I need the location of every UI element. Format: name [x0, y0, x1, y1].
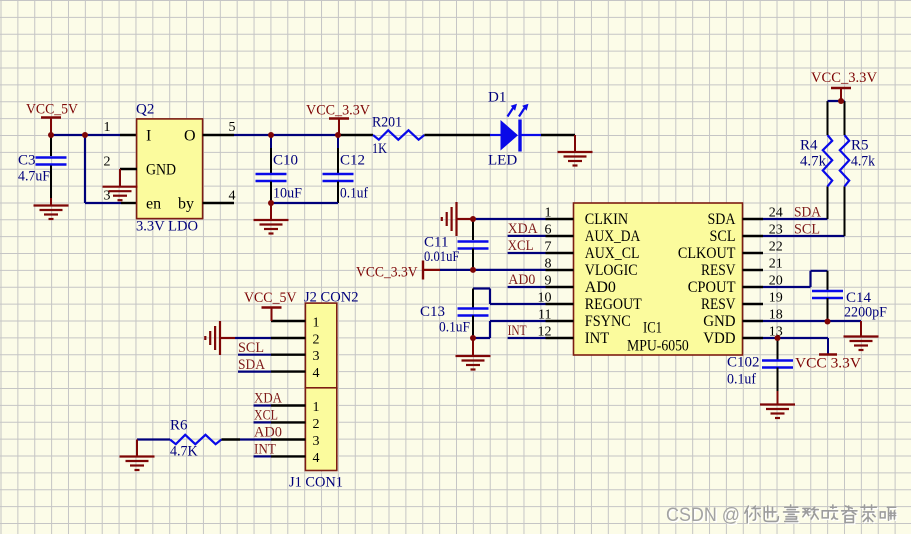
svg-text:AD0: AD0 [254, 425, 282, 441]
svg-text:RESV: RESV [701, 296, 736, 313]
svg-text:0.1uf: 0.1uf [340, 186, 368, 202]
svg-text:SDA: SDA [238, 357, 265, 373]
svg-text:2200pF: 2200pF [844, 305, 887, 321]
svg-text:CPOUT: CPOUT [688, 279, 736, 296]
svg-text:SCL: SCL [794, 222, 820, 238]
svg-text:MPU-6050: MPU-6050 [627, 338, 689, 355]
svg-text:2: 2 [313, 417, 320, 432]
svg-text:21: 21 [769, 257, 783, 272]
svg-text:J1 CON1: J1 CON1 [289, 475, 343, 491]
svg-text:0.1uf: 0.1uf [727, 372, 756, 388]
svg-text:4.7K: 4.7K [170, 444, 198, 460]
svg-text:IC1: IC1 [643, 320, 662, 337]
svg-text:SCL: SCL [238, 340, 264, 356]
svg-text:AUX_CL: AUX_CL [585, 245, 640, 262]
svg-text:FSYNC: FSYNC [585, 313, 631, 330]
svg-text:0.1uF: 0.1uF [439, 320, 470, 336]
svg-text:3: 3 [313, 434, 320, 449]
svg-text:D1: D1 [488, 90, 506, 106]
svg-text:4.7k: 4.7k [851, 154, 875, 170]
svg-text:C3: C3 [18, 153, 36, 169]
svg-text:J2 CON2: J2 CON2 [304, 290, 359, 306]
svg-text:LED: LED [488, 153, 517, 169]
svg-text:C13: C13 [420, 304, 445, 320]
svg-text:Q2: Q2 [136, 102, 154, 118]
svg-text:3.3V LDO: 3.3V LDO [136, 219, 198, 235]
svg-text:4: 4 [313, 366, 320, 381]
svg-text:1K: 1K [372, 141, 387, 157]
svg-text:7: 7 [545, 240, 552, 255]
svg-text:R5: R5 [851, 138, 869, 154]
svg-text:XCL: XCL [508, 238, 534, 254]
svg-text:VLOGIC: VLOGIC [585, 262, 638, 279]
svg-text:C10: C10 [273, 153, 298, 169]
svg-text:SDA: SDA [708, 211, 736, 228]
svg-text:en: en [146, 196, 161, 213]
svg-text:INT: INT [508, 323, 527, 339]
svg-text:VCC_5V: VCC_5V [26, 102, 78, 118]
svg-text:22: 22 [769, 240, 783, 255]
svg-text:XCL: XCL [254, 408, 278, 424]
svg-text:AD0: AD0 [585, 279, 616, 296]
svg-text:O: O [184, 128, 196, 145]
svg-text:VDD: VDD [703, 330, 735, 347]
svg-text:I: I [146, 128, 151, 145]
svg-text:XDA: XDA [508, 221, 538, 237]
svg-text:AUX_DA: AUX_DA [585, 228, 641, 245]
svg-text:1: 1 [313, 400, 320, 415]
svg-text:4: 4 [229, 189, 236, 204]
svg-text:2: 2 [313, 333, 320, 348]
svg-text:4: 4 [313, 451, 320, 466]
svg-text:9: 9 [545, 274, 552, 289]
svg-text:8: 8 [545, 257, 552, 272]
svg-text:R201: R201 [372, 115, 402, 131]
svg-text:C102: C102 [727, 355, 760, 371]
svg-text:6: 6 [545, 223, 552, 238]
svg-text:GND: GND [703, 313, 735, 330]
svg-text:R4: R4 [800, 138, 818, 154]
svg-text:by: by [178, 196, 194, 213]
svg-text:VCC_5V: VCC_5V [244, 290, 297, 306]
svg-text:XDA: XDA [254, 391, 282, 407]
svg-text:VCC 3.3V: VCC 3.3V [795, 356, 861, 372]
svg-text:5: 5 [229, 120, 236, 135]
svg-text:INT: INT [254, 442, 276, 458]
svg-text:10uF: 10uF [273, 186, 302, 202]
svg-text:RESV: RESV [701, 262, 736, 279]
svg-text:2: 2 [104, 155, 111, 170]
svg-text:4.7k: 4.7k [800, 154, 826, 170]
svg-text:AD0: AD0 [508, 272, 535, 288]
svg-text:VCC_3.3V: VCC_3.3V [306, 103, 370, 119]
svg-text:CLKIN: CLKIN [585, 211, 629, 228]
svg-text:REGOUT: REGOUT [585, 296, 642, 313]
svg-text:1: 1 [104, 120, 111, 135]
svg-text:CSDN @: CSDN @ [666, 504, 740, 526]
svg-text:R6: R6 [170, 418, 188, 434]
svg-text:C12: C12 [340, 153, 365, 169]
svg-text:VCC_3.3V: VCC_3.3V [811, 70, 877, 86]
svg-text:1: 1 [545, 206, 552, 221]
svg-text:SDA: SDA [794, 205, 821, 221]
svg-text:GND: GND [146, 162, 176, 179]
svg-text:1: 1 [313, 316, 320, 331]
svg-text:4.7uF: 4.7uF [18, 169, 50, 185]
svg-text:INT: INT [585, 330, 610, 347]
svg-text:VCC_3.3V: VCC_3.3V [356, 265, 418, 281]
svg-text:SCL: SCL [710, 228, 736, 245]
svg-text:CLKOUT: CLKOUT [678, 245, 736, 262]
svg-text:19: 19 [769, 291, 783, 306]
svg-text:3: 3 [313, 349, 320, 364]
svg-text:0.01uF: 0.01uF [424, 249, 459, 265]
